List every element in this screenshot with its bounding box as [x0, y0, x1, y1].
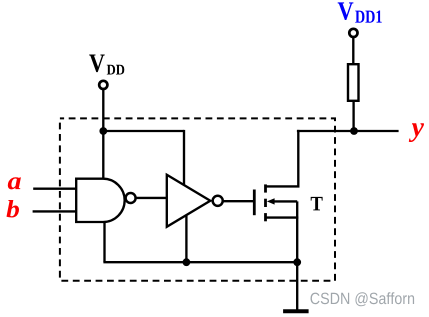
transistor T drain wire — [266, 130, 299, 187]
transistor T channel middle segment — [264, 199, 267, 207]
wire output y — [297, 130, 399, 132]
inverter output bubble — [213, 196, 223, 206]
watermark — [311, 292, 415, 306]
junction dot inverter ground — [183, 258, 191, 266]
label output y — [409, 123, 424, 142]
label VDD1 (DD1 subscript) — [355, 11, 381, 23]
terminal circle VDD1 — [349, 29, 357, 37]
wire inverter VDD drop — [183, 130, 185, 190]
NAND output bubble — [126, 193, 136, 203]
junction dot source/ground — [293, 258, 301, 266]
label T — [311, 197, 323, 210]
wire b input — [33, 210, 77, 212]
transistor T channel bottom segment — [264, 213, 267, 221]
label VDD1 (V) — [338, 2, 354, 20]
label input a — [8, 177, 21, 189]
wire VDD1 to resistor — [352, 37, 354, 64]
transistor T source wire — [266, 216, 299, 218]
resistor R1 — [348, 64, 359, 101]
wire NAND VDD drop — [102, 131, 104, 180]
wire NAND ground leg — [103, 221, 105, 262]
wire VDD vertical — [102, 90, 104, 132]
label VDD (V) — [89, 54, 104, 72]
wire VDD rail horizontal — [102, 130, 184, 132]
junction dot output node — [350, 127, 358, 135]
wire NAND out to inverter — [136, 197, 167, 199]
label VDD (DD subscript) — [107, 65, 124, 75]
ground symbol — [283, 309, 309, 313]
transistor T body arrow — [267, 198, 275, 204]
transistor T gate bar — [253, 190, 256, 216]
junction dot VDD node — [99, 127, 107, 135]
wire a input — [33, 188, 77, 190]
wire resistor to node — [352, 102, 354, 132]
inverter U2 triangle — [167, 175, 211, 227]
transistor T body/source vertical — [296, 201, 298, 262]
wire ground drop — [296, 262, 298, 310]
label input b — [6, 200, 19, 217]
dashed box — [60, 118, 335, 280]
NAND gate U1 body — [76, 179, 124, 222]
wire inverter out to gate — [223, 200, 254, 202]
terminal circle VDD — [99, 81, 107, 89]
wire bottom rail — [103, 261, 297, 263]
wire inverter ground drop — [185, 212, 187, 262]
transistor T channel top segment — [264, 184, 267, 192]
